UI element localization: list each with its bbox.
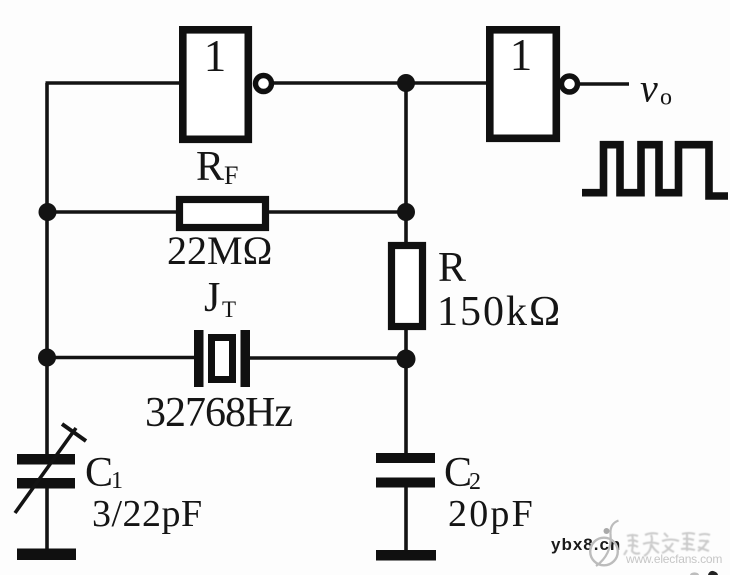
node B dot (left, RF row)	[39, 203, 57, 221]
svg-text:v: v	[640, 66, 658, 111]
label JT	[204, 275, 236, 322]
svg-text:R: R	[196, 144, 224, 190]
svg-text:22MΩ: 22MΩ	[167, 228, 272, 273]
svg-text:o: o	[660, 85, 672, 111]
resistor RF	[180, 200, 266, 228]
op-amp U2 (inverter box 2)	[490, 30, 557, 139]
svg-text:1: 1	[111, 468, 123, 494]
label C1	[85, 450, 123, 496]
corner mark	[690, 571, 718, 575]
label R	[438, 245, 466, 291]
wire left rail	[45, 83, 49, 455]
value 32768Hz	[145, 390, 292, 436]
watermark chinese characters	[624, 533, 710, 556]
watermark url	[625, 552, 722, 566]
svg-text:C: C	[85, 450, 113, 496]
svg-text:J: J	[204, 275, 220, 321]
wire crystal right	[249, 356, 406, 359]
node D dot (left, crystal row)	[38, 349, 56, 367]
svg-text:1: 1	[204, 31, 227, 81]
capacitor C1 (variable)	[17, 454, 75, 489]
value 20pF	[448, 493, 535, 535]
watermark logo swirl	[590, 521, 618, 567]
svg-text:1: 1	[510, 30, 533, 80]
svg-text:32768Hz: 32768Hz	[145, 390, 292, 436]
svg-text:20pF: 20pF	[448, 493, 535, 535]
inversion bubble U2	[562, 76, 578, 92]
resistor R	[392, 246, 423, 327]
wire R bottom to C2	[404, 329, 408, 454]
label RF	[196, 144, 238, 190]
inversion bubble U1	[256, 76, 272, 92]
wire output to vo	[579, 82, 629, 85]
node C dot (RF right junction)	[397, 203, 415, 221]
svg-text:150kΩ: 150kΩ	[437, 289, 562, 335]
value 22MOhm	[167, 228, 272, 273]
capacitor C2	[376, 453, 435, 488]
square wave symbol	[582, 145, 728, 196]
watermark ybx8.cn	[551, 535, 621, 554]
crystal JT	[194, 330, 250, 387]
label C2	[444, 450, 481, 496]
wire RF right	[269, 210, 406, 213]
svg-text:F: F	[224, 161, 238, 190]
op-amp U1 (inverter box 1)	[183, 30, 249, 140]
wire node A to inverter U2	[406, 81, 487, 84]
svg-text:3/22pF: 3/22pF	[92, 493, 203, 535]
node E dot (R bottom junction)	[397, 350, 416, 369]
ground (right)	[376, 550, 436, 561]
node vo label	[640, 66, 672, 111]
svg-text:T: T	[222, 297, 236, 322]
svg-text:www.elecfans.com: www.elecfans.com	[625, 552, 722, 566]
wire RF left	[47, 210, 177, 213]
svg-text:2: 2	[469, 469, 481, 495]
value 150kOhm	[437, 289, 562, 335]
wire middle vertical node A to R	[404, 83, 408, 243]
svg-text:C: C	[444, 450, 472, 496]
wire C2 to ground	[404, 486, 408, 552]
ground (left)	[17, 549, 76, 561]
value 3/22pF	[92, 493, 203, 535]
wire crystal left	[47, 356, 195, 359]
svg-text:R: R	[438, 245, 466, 291]
wire bubble1 to node A	[272, 81, 406, 84]
C1 trimmer arrow	[15, 424, 86, 513]
wire top left	[46, 81, 180, 84]
node A dot	[397, 74, 415, 92]
wire C1 to ground	[45, 487, 49, 551]
